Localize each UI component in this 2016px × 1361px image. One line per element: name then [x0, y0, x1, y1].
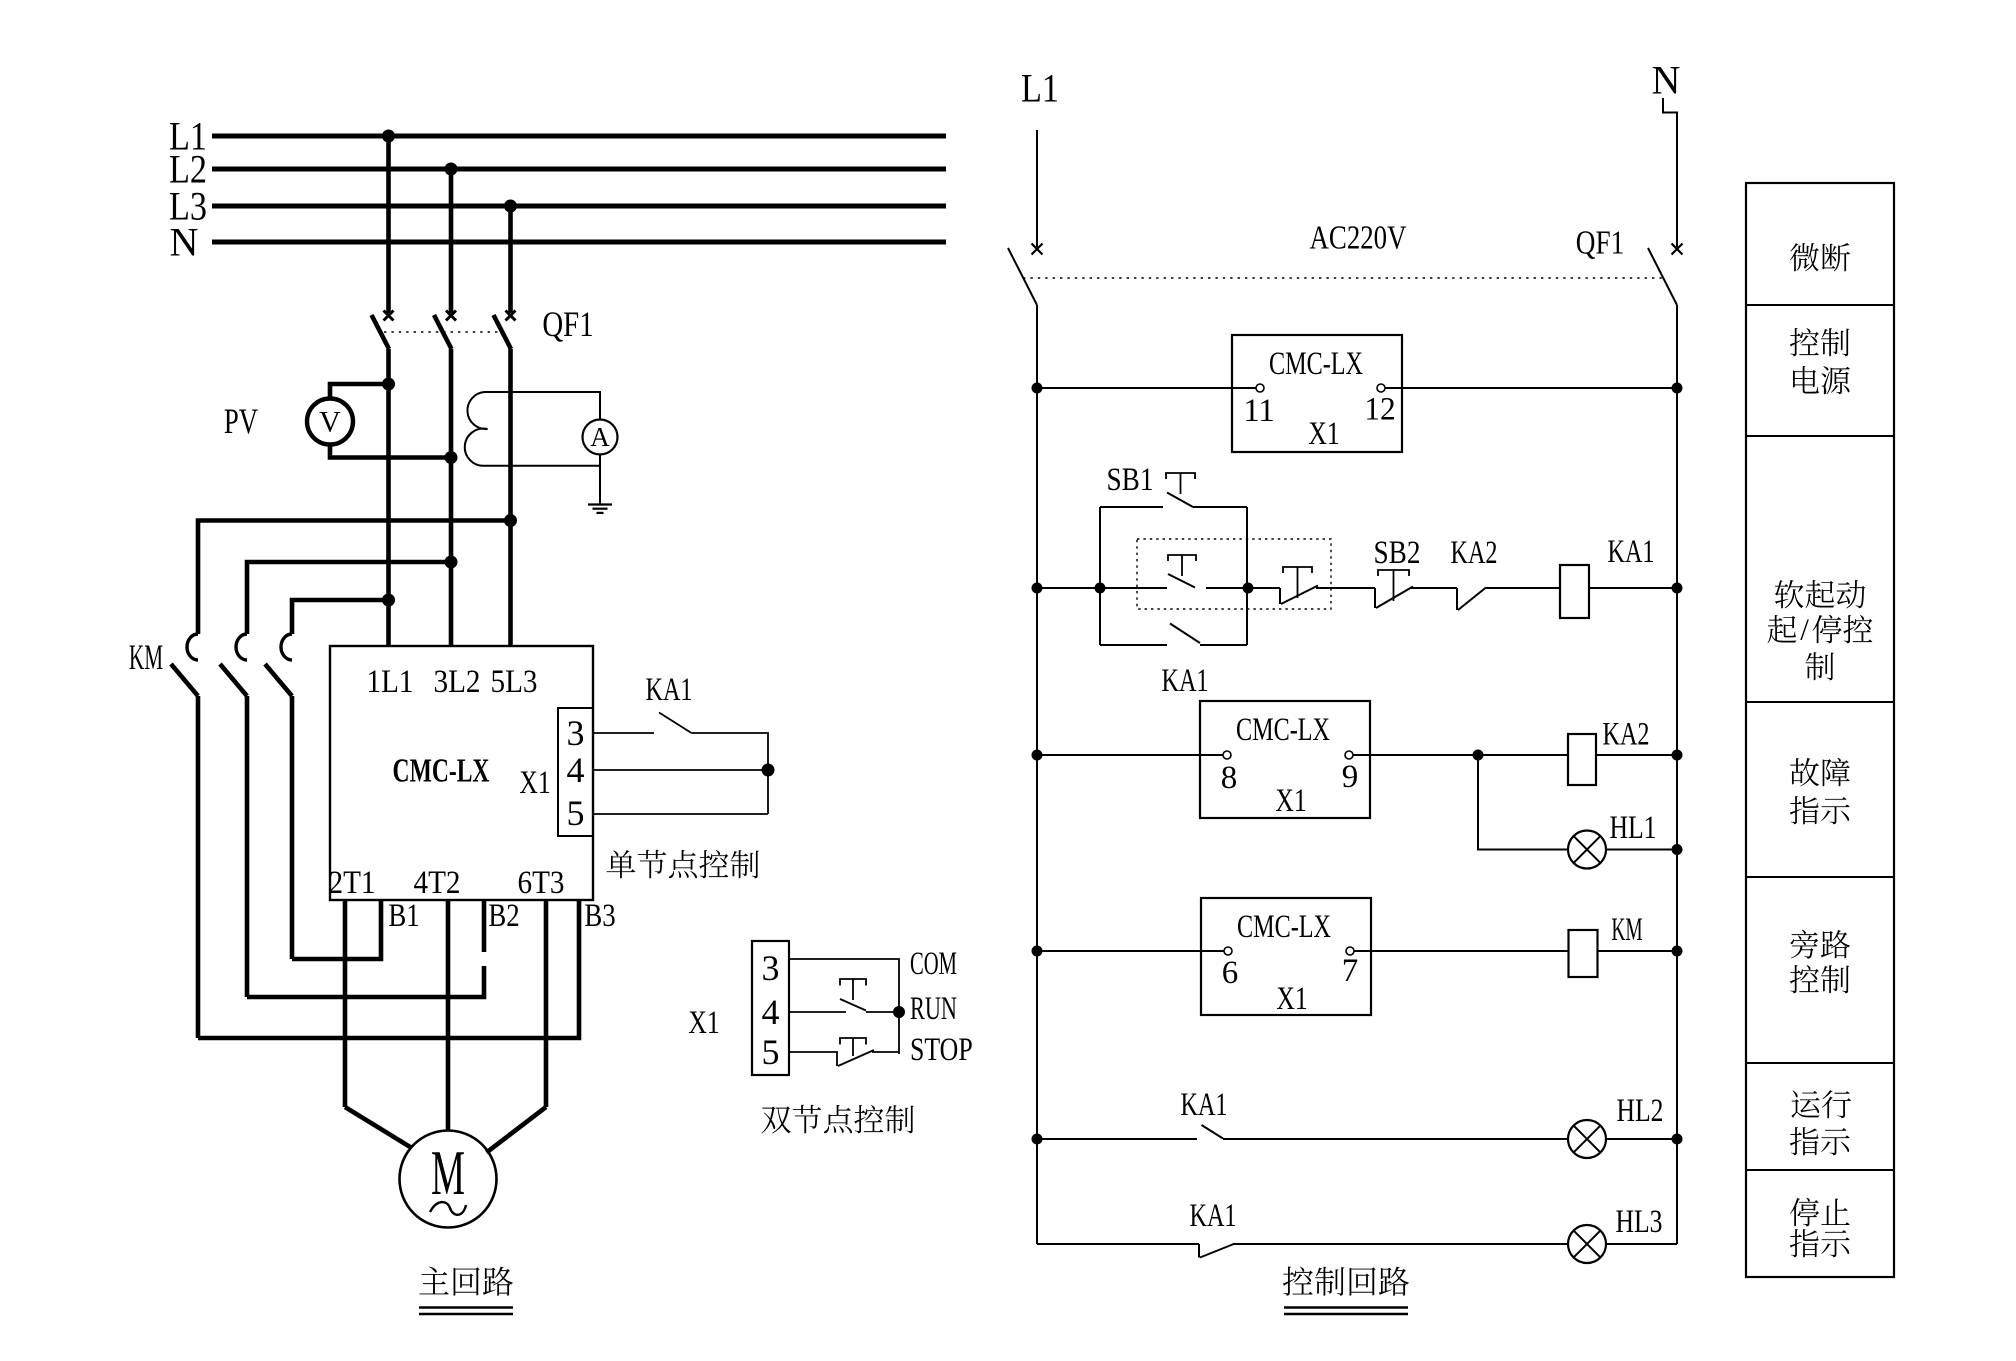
table divider — [1746, 1169, 1894, 1171]
svg-text:CMC-LX: CMC-LX — [393, 752, 490, 789]
terminal X1 block (dual-node) — [688, 941, 789, 1075]
svg-text:4: 4 — [762, 992, 780, 1032]
wire rung5 right — [1606, 1134, 1683, 1145]
svg-text:B1: B1 — [388, 898, 419, 934]
svg-text:CMC-LX: CMC-LX — [1237, 909, 1331, 945]
wire B1 return — [292, 900, 381, 959]
bus N — [170, 219, 946, 264]
table row run indication — [1790, 1090, 1851, 1155]
motor M — [400, 1131, 497, 1228]
table row fault indication — [1790, 758, 1850, 825]
svg-text:KA1: KA1 — [1161, 663, 1208, 699]
breaker QF1 linkage — [384, 331, 502, 333]
table row soft start/stop — [1768, 580, 1873, 680]
wire rung4 right — [1598, 946, 1683, 957]
svg-text:V: V — [319, 405, 341, 438]
table divider — [1746, 876, 1894, 878]
wire rung2 stub — [1032, 583, 1106, 594]
svg-text:CMC-LX: CMC-LX — [1236, 712, 1330, 748]
coil KA2 — [1568, 716, 1650, 785]
wire rung5 left — [1032, 1134, 1198, 1145]
svg-text:2T1: 2T1 — [328, 865, 375, 901]
bus L3 — [169, 183, 946, 228]
svg-text:N: N — [170, 219, 199, 264]
wire rung2 right — [1589, 583, 1683, 594]
svg-text:RUN: RUN — [910, 991, 957, 1027]
SB1 parallel block left leg — [1099, 507, 1101, 645]
svg-text:SB1: SB1 — [1106, 462, 1153, 498]
CMC-LX control power box — [1232, 335, 1402, 452]
label main circuit — [419, 1267, 513, 1314]
remote stop contact (dotted, NC) — [1248, 567, 1375, 604]
svg-text:L1: L1 — [1021, 65, 1059, 110]
svg-text:6: 6 — [1222, 955, 1239, 991]
wire B2 return — [247, 900, 484, 997]
right control bus — [1676, 305, 1678, 1244]
svg-text:9: 9 — [1342, 759, 1359, 795]
node L1 control — [1021, 65, 1059, 247]
ammeter A — [583, 420, 618, 455]
wire X1 pin3 — [593, 732, 654, 734]
svg-text:COM: COM — [910, 946, 957, 982]
wire ammeter to ground — [599, 455, 601, 505]
wire rung6 mid — [1233, 1243, 1568, 1245]
svg-text:KA1: KA1 — [1180, 1087, 1227, 1123]
svg-text:X1: X1 — [1275, 783, 1306, 819]
svg-text:12: 12 — [1364, 391, 1395, 427]
svg-text:PV: PV — [224, 401, 258, 441]
wire rung3 left — [1032, 750, 1223, 761]
wire HL1 right — [1606, 844, 1683, 855]
node N control — [1652, 57, 1681, 247]
wire rung4 left — [1032, 946, 1224, 957]
svg-text:HL1: HL1 — [1609, 810, 1656, 846]
push button SB1 — [1100, 462, 1247, 507]
wire motor lead right — [487, 1107, 547, 1153]
svg-text:8: 8 — [1221, 760, 1238, 796]
wire rung6 left — [1037, 1243, 1199, 1245]
wire bypass phase2 top — [247, 556, 458, 635]
svg-text:AC220V: AC220V — [1310, 219, 1407, 256]
CMC-LX fault box — [1200, 701, 1370, 819]
svg-text:/: / — [1800, 611, 1809, 646]
svg-text:6T3: 6T3 — [517, 865, 564, 901]
svg-text:3: 3 — [567, 713, 585, 753]
relay contact KA1 stop (NC) — [1189, 1198, 1236, 1258]
table row bypass control — [1790, 930, 1850, 994]
current transformer — [465, 392, 488, 466]
coil KM — [1569, 912, 1643, 977]
breaker QF1 pole 1 — [372, 311, 394, 647]
svg-text:X1: X1 — [688, 1005, 719, 1041]
breaker QF1 pole 3 — [494, 311, 516, 647]
svg-text:4T2: 4T2 — [413, 865, 460, 901]
wire rung6 right — [1606, 1243, 1677, 1245]
table row stop indication — [1790, 1198, 1850, 1258]
lamp HL2 — [1568, 1093, 1664, 1158]
svg-text:KM: KM — [1611, 912, 1642, 948]
table divider — [1746, 1062, 1894, 1064]
contactor KM pole 1 — [171, 634, 198, 1038]
svg-text:QF1: QF1 — [1576, 224, 1624, 261]
wire rung3 right — [1596, 750, 1683, 761]
breaker QF1 control pole L — [1008, 244, 1043, 306]
wire HL1 branch — [1478, 755, 1568, 850]
svg-text:1L1: 1L1 — [366, 664, 413, 700]
lamp HL1 — [1568, 810, 1657, 869]
svg-text:KA2: KA2 — [1602, 716, 1649, 752]
svg-text:5: 5 — [762, 1032, 780, 1072]
relay contact KA1 self-hold — [1100, 624, 1247, 646]
wire contact to node — [692, 733, 769, 814]
svg-text:5: 5 — [567, 793, 585, 833]
svg-text:N: N — [1652, 57, 1681, 102]
wire B3 return — [198, 900, 579, 1038]
wire motor lead left — [345, 1107, 411, 1148]
table row control power — [1790, 328, 1850, 394]
wire 4T2 output — [446, 900, 451, 1131]
wire L2 tap — [445, 163, 458, 314]
contactor KM pole 2 — [220, 634, 247, 997]
svg-text:HL3: HL3 — [1615, 1204, 1662, 1240]
wire 2T1 output — [343, 900, 348, 1107]
table row breaker — [1790, 243, 1819, 271]
wire rung1 right — [1385, 383, 1683, 394]
svg-text:5L3: 5L3 — [490, 664, 537, 700]
svg-text:QF1: QF1 — [542, 304, 593, 344]
bus L2 — [169, 146, 946, 191]
wire L1 tap — [382, 130, 395, 314]
wire rung5 mid — [1223, 1138, 1568, 1140]
label single-node control — [607, 850, 636, 878]
wire CT secondary bottom — [485, 465, 601, 467]
svg-text:STOP: STOP — [910, 1032, 973, 1068]
svg-text:A: A — [590, 422, 610, 452]
svg-text:KA1: KA1 — [1607, 534, 1654, 570]
svg-text:X1: X1 — [519, 765, 550, 801]
soft starter CMC-LX main box — [328, 646, 593, 901]
voltmeter PV — [224, 399, 353, 445]
svg-text:KA1: KA1 — [1189, 1198, 1236, 1234]
push button RUN (NO) — [789, 979, 905, 1018]
CMC-LX bypass box — [1201, 898, 1371, 1017]
push button SB2 (NC) — [1373, 535, 1457, 608]
relay contact KA1 (single-node) — [645, 672, 692, 733]
relay contact KA1 run — [1180, 1087, 1227, 1139]
svg-text:M: M — [431, 1138, 465, 1208]
wire bypass phase1 top — [292, 594, 395, 635]
label dual-node control — [762, 1106, 791, 1133]
svg-text:4: 4 — [567, 750, 585, 790]
table divider — [1746, 304, 1894, 306]
table divider — [1746, 435, 1894, 437]
svg-text:7: 7 — [1342, 953, 1359, 989]
contactor KM pole 3 — [265, 634, 292, 959]
wire 6T3 output — [544, 900, 549, 1107]
wire rung4 mid — [1354, 950, 1569, 952]
breaker QF1 control pole N — [1648, 244, 1683, 306]
wire X1 pin4 — [593, 764, 775, 777]
SB1 parallel block right leg — [1246, 507, 1248, 645]
breaker linkage dotted — [1023, 277, 1663, 279]
svg-text:X1: X1 — [1308, 416, 1339, 452]
svg-text:B2: B2 — [488, 898, 519, 934]
wire pin3 to COM — [789, 959, 899, 1054]
wire L3 tap — [504, 200, 517, 314]
wire CT secondary top — [485, 392, 601, 420]
terminal X1 block (single-node) — [519, 708, 593, 836]
svg-text:3: 3 — [762, 948, 780, 988]
svg-text:HL2: HL2 — [1616, 1093, 1663, 1129]
wire PV bottom — [330, 445, 458, 465]
remote run contact (dotted) — [1100, 555, 1254, 594]
wire X1 pin5 — [593, 813, 768, 815]
svg-text:B3: B3 — [584, 898, 615, 934]
svg-text:SB2: SB2 — [1373, 535, 1420, 571]
svg-text:KA1: KA1 — [645, 672, 692, 708]
svg-text:X1: X1 — [1276, 981, 1307, 1017]
wire rung3 mid — [1353, 750, 1568, 761]
table divider — [1746, 701, 1894, 703]
wire rung1 left — [1032, 383, 1257, 394]
wire bypass phase3 top — [198, 514, 517, 634]
coil KA1 — [1560, 534, 1655, 618]
wire PV top — [330, 378, 395, 399]
breaker QF1 pole 2 — [434, 311, 456, 647]
svg-text:3L2: 3L2 — [433, 664, 480, 700]
label control circuit — [1283, 1267, 1409, 1314]
svg-text:KA2: KA2 — [1450, 535, 1497, 571]
svg-text:CMC-LX: CMC-LX — [1269, 346, 1363, 382]
function table frame — [1746, 183, 1894, 1277]
left control bus — [1036, 305, 1038, 1244]
bus L1 — [169, 113, 946, 158]
ground — [588, 505, 612, 513]
dotted remote box — [1137, 539, 1331, 609]
lamp HL3 — [1568, 1204, 1663, 1263]
svg-text:11: 11 — [1243, 393, 1274, 429]
svg-text:KM: KM — [129, 637, 163, 677]
relay contact KA2 (NC) — [1450, 535, 1560, 610]
push button STOP (NC) — [789, 1038, 899, 1066]
